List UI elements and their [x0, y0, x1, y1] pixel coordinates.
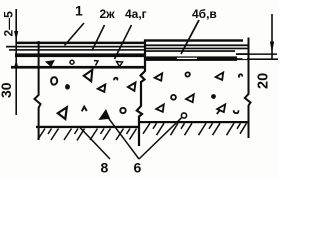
layer line L3 left	[9, 49, 146, 51]
svg-text:2ж: 2ж	[100, 7, 116, 21]
svg-text:6: 6	[134, 160, 142, 176]
layer line R4 right	[144, 50, 235, 52]
dimension line left with arrows	[14, 9, 18, 115]
leader line for label 1	[65, 23, 85, 46]
soil hatch right	[143, 123, 247, 135]
layer line L4 left thick	[15, 53, 146, 57]
svg-text:1: 1	[75, 3, 83, 19]
layer line R3 right	[144, 48, 249, 50]
svg-text:2—5: 2—5	[2, 11, 16, 37]
layer line L1 left covering top	[16, 42, 146, 45]
svg-text:4а,г: 4а,г	[125, 7, 147, 21]
layer line L2 left	[6, 46, 146, 48]
ground line left	[36, 126, 140, 128]
extension line right lower	[249, 58, 278, 60]
aggregate marks in left bedding band	[47, 60, 123, 66]
layer line R1 right covering top	[144, 39, 243, 41]
leader line for label 2ж	[92, 25, 105, 51]
layer line R5 right thick screed	[144, 56, 237, 61]
layer line R5 split ends near border	[236, 53, 249, 55]
right border wall line with break	[245, 38, 251, 139]
left border wall line with break	[35, 41, 41, 140]
svg-text:4б,в: 4б,в	[192, 7, 217, 21]
leader line for label 8	[79, 127, 110, 160]
layer line L5 left band bottom	[11, 66, 146, 69]
svg-text:30: 30	[0, 82, 14, 98]
dimension line right with arrow	[270, 14, 274, 60]
aggregate marks right concrete	[155, 72, 243, 114]
leader V lines for label 6	[105, 113, 187, 159]
white notch in R5	[177, 58, 197, 59]
middle divider line with two breaks	[137, 40, 145, 147]
svg-text:20: 20	[256, 73, 272, 89]
aggregate marks left concrete	[51, 70, 135, 119]
leader line for label 4б,в	[181, 20, 199, 54]
svg-text:8: 8	[101, 160, 109, 176]
extension line right upper	[249, 53, 277, 55]
layer line R2 right	[144, 44, 249, 46]
ground line right	[140, 121, 249, 123]
leader line for label 4а,г	[115, 25, 132, 59]
soil hatch left	[38, 129, 137, 141]
